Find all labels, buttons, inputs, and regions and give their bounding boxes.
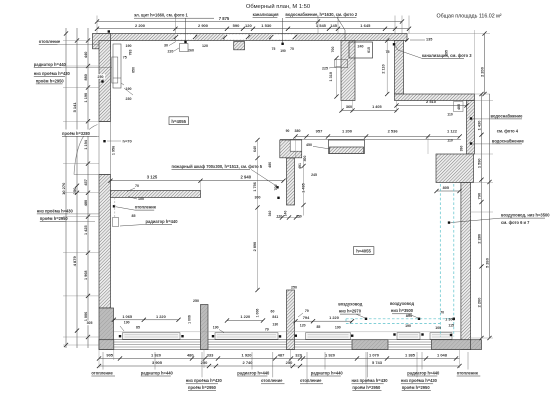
right inner chain xyxy=(481,94,483,338)
svg-text:2 940: 2 940 xyxy=(241,174,252,179)
svg-text:h=70: h=70 xyxy=(123,139,133,144)
svg-text:250: 250 xyxy=(286,360,293,365)
bottom row B xyxy=(99,365,460,367)
svg-text:1 920: 1 920 xyxy=(151,352,162,357)
svg-text:320: 320 xyxy=(295,352,302,357)
svg-text:радиатор h=440: радиатор h=440 xyxy=(146,219,179,224)
svg-text:1 070: 1 070 xyxy=(369,352,380,357)
right wall block xyxy=(436,154,474,183)
svg-text:240: 240 xyxy=(358,45,364,49)
left wall mid (below door) xyxy=(99,175,111,309)
svg-text:380: 380 xyxy=(295,129,301,133)
svg-text:115: 115 xyxy=(448,323,454,327)
door swing arc xyxy=(74,125,98,175)
svg-text:низ проёма h=430: низ проёма h=430 xyxy=(186,378,223,383)
left wall lower grey xyxy=(99,308,114,350)
right outer chain xyxy=(489,94,491,338)
svg-text:см. фото 4: см. фото 4 xyxy=(497,128,519,133)
svg-text:воздуховод: воздуховод xyxy=(338,301,363,306)
svg-text:487: 487 xyxy=(278,352,285,357)
svg-text:1 530: 1 530 xyxy=(261,23,272,28)
duct vertical lines xyxy=(439,184,441,337)
svg-text:5 141: 5 141 xyxy=(72,102,77,113)
pilaster under opening 2 xyxy=(234,42,245,50)
svg-text:333: 333 xyxy=(207,352,214,357)
svg-text:190: 190 xyxy=(335,326,341,330)
svg-text:300: 300 xyxy=(255,196,261,200)
bottom row A xyxy=(99,358,460,360)
svg-text:Обмерный план, М 1:50: Обмерный план, М 1:50 xyxy=(246,3,310,10)
right wall lower xyxy=(461,183,471,350)
svg-text:110: 110 xyxy=(447,113,453,117)
svg-text:440: 440 xyxy=(84,52,88,58)
svg-text:1 968: 1 968 xyxy=(84,271,88,281)
svg-text:590: 590 xyxy=(233,23,240,28)
partition B (left horizontal) xyxy=(111,191,201,198)
svg-text:отопление: отопление xyxy=(457,370,479,375)
right wall upper xyxy=(467,101,475,155)
svg-text:250: 250 xyxy=(193,299,199,303)
svg-text:1 956: 1 956 xyxy=(112,146,116,155)
top wall xyxy=(97,34,407,41)
chain 957/1200/2536/1122 xyxy=(296,136,460,138)
h70 note xyxy=(103,140,105,142)
window glazing lines xyxy=(114,341,201,343)
svg-text:радиатор h=440: радиатор h=440 xyxy=(141,370,174,375)
svg-text:проём h=2950: проём h=2950 xyxy=(40,216,69,221)
svg-text:5 743: 5 743 xyxy=(372,360,383,365)
svg-text:проём h=2950: проём h=2950 xyxy=(402,385,431,390)
svg-text:1 545: 1 545 xyxy=(316,23,327,28)
svg-text:120: 120 xyxy=(300,323,306,327)
svg-text:485: 485 xyxy=(457,104,461,110)
svg-text:805: 805 xyxy=(443,186,449,190)
height note box 1 xyxy=(169,117,189,125)
svg-text:79: 79 xyxy=(265,328,269,332)
svg-text:75: 75 xyxy=(272,47,276,51)
svg-text:60: 60 xyxy=(271,309,275,313)
svg-text:1 122: 1 122 xyxy=(447,128,458,133)
svg-text:низ проёма h=430: низ проёма h=430 xyxy=(401,378,438,383)
svg-text:190: 190 xyxy=(213,325,219,329)
bottom wall sill line xyxy=(99,339,471,341)
svg-text:1 006: 1 006 xyxy=(84,312,88,322)
witness bottom xyxy=(98,350,100,369)
right notch chain 2200 xyxy=(484,34,486,95)
svg-text:2 536: 2 536 xyxy=(388,128,399,133)
cluster 3 xyxy=(296,320,353,322)
svg-text:220: 220 xyxy=(168,50,174,54)
notch bottom chains xyxy=(342,110,397,112)
svg-text:проём h=2950: проём h=2950 xyxy=(188,385,217,390)
svg-text:проём h=2950: проём h=2950 xyxy=(352,385,381,390)
svg-text:841: 841 xyxy=(272,315,278,319)
svg-text:340: 340 xyxy=(268,211,272,217)
svg-text:Общая площадь 116.02 м²: Общая площадь 116.02 м² xyxy=(436,14,501,20)
svg-text:1 645: 1 645 xyxy=(360,23,371,28)
svg-text:75: 75 xyxy=(386,50,390,54)
height note box 2 xyxy=(353,247,374,255)
svg-text:1 385: 1 385 xyxy=(405,352,416,357)
corridor line xyxy=(280,138,461,140)
svg-text:низ проёма h=430: низ проёма h=430 xyxy=(37,208,74,213)
svg-text:130: 130 xyxy=(272,323,278,327)
top chain 7875 xyxy=(97,21,402,23)
svg-text:1 006: 1 006 xyxy=(188,315,192,324)
left chain outer 10270 xyxy=(65,28,67,348)
fire cabinet wall L xyxy=(280,140,302,158)
svg-text:2 740: 2 740 xyxy=(242,360,253,365)
bottom pier stub 1 xyxy=(201,305,209,350)
svg-text:водоснабжение: водоснабжение xyxy=(491,113,524,118)
svg-text:1 430: 1 430 xyxy=(476,121,481,131)
svg-text:1 425: 1 425 xyxy=(84,225,88,235)
svg-text:1 310: 1 310 xyxy=(329,72,333,82)
bottom pier wide xyxy=(352,340,388,350)
svg-text:1 405: 1 405 xyxy=(372,105,382,109)
svg-text:1 190: 1 190 xyxy=(84,93,88,103)
svg-text:110: 110 xyxy=(447,139,453,143)
svg-text:85: 85 xyxy=(132,214,136,218)
svg-text:390: 390 xyxy=(460,146,464,152)
svg-text:см. фото 6 и 7: см. фото 6 и 7 xyxy=(501,220,530,225)
svg-text:эл. щит h=1660, см. фото 1: эл. щит h=1660, см. фото 1 xyxy=(134,13,189,18)
svg-text:1 200: 1 200 xyxy=(342,128,353,133)
svg-text:радиатор h=440: радиатор h=440 xyxy=(407,370,440,375)
svg-text:640: 640 xyxy=(253,146,257,152)
svg-text:305: 305 xyxy=(87,321,93,325)
left chain mid xyxy=(76,28,78,348)
water box left of wall A xyxy=(335,60,348,68)
svg-text:воздуховод, низ h=3500: воздуховод, низ h=3500 xyxy=(501,213,550,218)
svg-text:низ h=3500: низ h=3500 xyxy=(391,308,414,313)
svg-text:230: 230 xyxy=(126,97,132,101)
svg-text:1 920: 1 920 xyxy=(325,352,336,357)
svg-text:295: 295 xyxy=(445,50,449,56)
svg-text:480: 480 xyxy=(84,200,88,206)
svg-text:2 110: 2 110 xyxy=(382,64,386,73)
leader lines bottom labels xyxy=(102,352,104,370)
svg-text:250: 250 xyxy=(201,360,208,365)
top wall opening 2 xyxy=(225,34,248,39)
svg-text:отопление: отопление xyxy=(91,370,113,375)
witness right xyxy=(471,153,493,155)
top chain row2 xyxy=(97,28,409,30)
svg-text:2 200: 2 200 xyxy=(135,23,146,28)
svg-text:480: 480 xyxy=(187,352,194,357)
svg-text:794: 794 xyxy=(303,315,310,320)
top wall opening (panel) xyxy=(176,34,195,39)
svg-text:190: 190 xyxy=(405,324,411,328)
window sill front line xyxy=(114,331,461,333)
witness lines top xyxy=(96,16,98,34)
svg-text:1 220: 1 220 xyxy=(240,314,250,319)
svg-text:низ проёма h=430: низ проёма h=430 xyxy=(34,71,71,76)
svg-text:190: 190 xyxy=(126,44,132,48)
svg-text:отопление: отопление xyxy=(135,205,157,210)
svg-text:низ проёма h=430: низ проёма h=430 xyxy=(352,378,389,383)
chain 3125/2940 xyxy=(111,180,284,182)
bottom-right corner grey xyxy=(471,340,482,350)
svg-text:1 065: 1 065 xyxy=(122,314,133,319)
svg-text:проём h=2950: проём h=2950 xyxy=(36,78,65,83)
svg-text:250: 250 xyxy=(291,286,297,290)
svg-text:1 220: 1 220 xyxy=(329,315,339,320)
svg-text:1 920: 1 920 xyxy=(241,352,252,357)
svg-text:пожарный шкаф 700х300, h=1513,: пожарный шкаф 700х300, h=1513, см. фото … xyxy=(172,164,263,169)
svg-text:135: 135 xyxy=(426,38,432,42)
svg-text:79: 79 xyxy=(305,309,309,313)
svg-text:957: 957 xyxy=(316,128,323,133)
opening label door xyxy=(61,130,97,137)
svg-text:260: 260 xyxy=(188,49,194,53)
svg-text:10 270: 10 270 xyxy=(61,182,66,195)
svg-text:650: 650 xyxy=(132,67,136,73)
svg-text:водоснабжение, h=1630, см. фот: водоснабжение, h=1630, см. фото 2 xyxy=(285,12,357,17)
svg-text:250: 250 xyxy=(72,187,77,194)
radiators along bottom xyxy=(123,333,181,340)
svg-text:1 756: 1 756 xyxy=(253,182,257,192)
svg-text:190: 190 xyxy=(280,49,286,53)
svg-text:790: 790 xyxy=(476,193,481,200)
svg-text:отопление: отопление xyxy=(261,378,283,383)
svg-text:7 875: 7 875 xyxy=(219,16,230,21)
svg-text:245: 245 xyxy=(311,173,317,177)
svg-text:120: 120 xyxy=(245,23,252,28)
svg-text:радиатор h=440: радиатор h=440 xyxy=(311,370,344,375)
svg-text:700: 700 xyxy=(331,47,335,53)
svg-text:отопление: отопление xyxy=(39,39,61,44)
central wall lower xyxy=(287,290,295,350)
svg-text:2 510: 2 510 xyxy=(426,99,437,104)
bottom pier 4 xyxy=(432,340,471,350)
central wall upper xyxy=(287,158,295,205)
svg-text:457: 457 xyxy=(84,179,88,185)
door opening jambs xyxy=(99,121,111,123)
svg-text:2 890: 2 890 xyxy=(253,242,257,252)
pilaster/shaft xyxy=(113,44,121,88)
left wall upper xyxy=(99,41,111,122)
svg-text:90: 90 xyxy=(286,129,290,133)
svg-text:радиатор h=440: радиатор h=440 xyxy=(237,370,270,375)
svg-text:85: 85 xyxy=(136,326,140,330)
cluster window dims left xyxy=(114,319,179,321)
svg-text:1 048: 1 048 xyxy=(437,352,448,357)
svg-text:783: 783 xyxy=(129,50,133,56)
svg-text:радиатор h=440: радиатор h=440 xyxy=(34,62,67,67)
bottom left corner pier xyxy=(99,340,114,350)
svg-text:2 200: 2 200 xyxy=(476,298,481,308)
interior wall A (top middle) xyxy=(341,41,355,101)
svg-text:145: 145 xyxy=(330,23,337,28)
niche box xyxy=(349,42,373,58)
svg-text:2 280: 2 280 xyxy=(476,234,481,244)
svg-text:проём h=3280: проём h=3280 xyxy=(62,131,91,136)
svg-text:1 590: 1 590 xyxy=(476,158,481,168)
svg-text:190: 190 xyxy=(126,87,132,91)
svg-text:450: 450 xyxy=(306,143,312,147)
svg-text:3 125: 3 125 xyxy=(147,174,158,179)
svg-text:2 200: 2 200 xyxy=(479,67,484,77)
svg-text:1 300: 1 300 xyxy=(445,317,455,322)
svg-text:1 006: 1 006 xyxy=(256,309,260,318)
left chain inner xyxy=(87,28,89,348)
svg-text:5 260: 5 260 xyxy=(484,258,489,268)
top-right notch vertical wall xyxy=(395,41,404,95)
svg-text:70: 70 xyxy=(135,184,139,188)
svg-text:30: 30 xyxy=(164,44,168,48)
svg-text:h=4055: h=4055 xyxy=(356,249,371,254)
svg-text:отопление: отопление xyxy=(300,378,322,383)
svg-text:h=4055: h=4055 xyxy=(171,119,186,124)
svg-text:100: 100 xyxy=(435,326,441,330)
svg-text:75: 75 xyxy=(123,56,127,60)
duct horizontal lines xyxy=(346,318,454,320)
svg-text:85: 85 xyxy=(316,325,320,329)
svg-text:360: 360 xyxy=(346,105,352,109)
cluster 2 xyxy=(227,320,263,322)
svg-text:1 220: 1 220 xyxy=(156,314,166,319)
witness lines left xyxy=(63,40,99,42)
block dim 805 xyxy=(437,190,460,192)
svg-text:воздуховод: воздуховод xyxy=(390,301,415,306)
svg-text:70: 70 xyxy=(440,310,444,314)
svg-text:75: 75 xyxy=(290,47,294,51)
top-left pilaster xyxy=(93,34,111,49)
top-right notch horizontal wall xyxy=(395,94,475,101)
svg-text:низ h=2970: низ h=2970 xyxy=(339,309,362,314)
svg-text:250: 250 xyxy=(98,75,104,79)
svg-text:3 905: 3 905 xyxy=(152,360,163,365)
svg-text:канализация: канализация xyxy=(253,12,279,17)
svg-text:480: 480 xyxy=(268,162,272,168)
svg-text:225: 225 xyxy=(322,67,328,71)
svg-text:4 879: 4 879 xyxy=(72,256,77,267)
svg-text:120: 120 xyxy=(202,44,208,48)
shelf wall xyxy=(329,140,365,154)
svg-text:1 194: 1 194 xyxy=(84,139,88,149)
svg-text:880: 880 xyxy=(84,74,88,80)
top wall opening 3 (canalisation) xyxy=(271,34,295,39)
svg-text:905: 905 xyxy=(106,352,113,357)
svg-text:2 900: 2 900 xyxy=(198,23,209,28)
svg-text:водоснабжение: водоснабжение xyxy=(492,138,525,143)
svg-text:190: 190 xyxy=(124,321,130,325)
svg-text:615: 615 xyxy=(367,47,371,53)
svg-text:100: 100 xyxy=(138,197,144,201)
